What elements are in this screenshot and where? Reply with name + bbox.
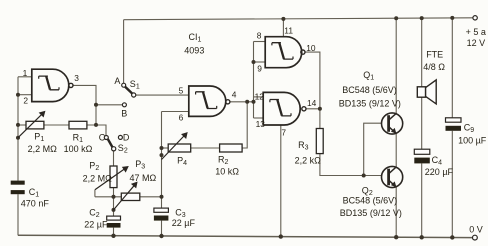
svg-text:CI1: CI1 (189, 32, 202, 44)
svg-text:11: 11 (284, 25, 293, 35)
svg-text:7: 7 (281, 127, 286, 137)
svg-text:C1: C1 (29, 187, 40, 199)
svg-text:C: C (99, 132, 106, 142)
svg-text:470 nF: 470 nF (21, 198, 50, 208)
svg-text:4: 4 (232, 89, 237, 99)
svg-text:S2: S2 (118, 143, 128, 155)
svg-text:2: 2 (23, 96, 28, 106)
svg-text:5: 5 (179, 86, 184, 96)
svg-text:C9: C9 (464, 123, 475, 135)
svg-text:P2: P2 (89, 161, 99, 173)
svg-text:12 V: 12 V (467, 38, 486, 48)
svg-text:P3: P3 (135, 159, 145, 171)
svg-text:B: B (121, 109, 127, 119)
svg-text:100 kΩ: 100 kΩ (64, 144, 93, 154)
svg-text:BC548 (5/6V): BC548 (5/6V) (342, 85, 397, 95)
svg-text:FTE: FTE (426, 50, 443, 60)
svg-text:13: 13 (256, 119, 266, 129)
svg-text:BC548 (5/6V): BC548 (5/6V) (343, 195, 398, 205)
svg-text:R3: R3 (298, 140, 309, 152)
svg-text:0 V: 0 V (469, 225, 483, 235)
svg-text:22 µF: 22 µF (84, 220, 108, 230)
svg-text:1: 1 (23, 68, 28, 78)
svg-text:220 µF: 220 µF (425, 167, 454, 177)
svg-text:8: 8 (257, 30, 262, 40)
svg-text:P1: P1 (34, 131, 44, 143)
svg-text:R2: R2 (218, 154, 229, 166)
svg-text:9: 9 (257, 63, 262, 73)
svg-text:47 MΩ: 47 MΩ (130, 173, 157, 183)
svg-text:BD135 (9/12 V): BD135 (9/12 V) (339, 98, 401, 108)
svg-text:10: 10 (306, 43, 316, 53)
svg-text:4093: 4093 (184, 46, 204, 56)
svg-text:3: 3 (74, 73, 79, 83)
svg-text:4/8 Ω: 4/8 Ω (423, 62, 445, 72)
svg-text:2,2 kΩ: 2,2 kΩ (295, 155, 322, 165)
svg-text:100 µF: 100 µF (458, 136, 487, 146)
svg-text:D: D (123, 132, 130, 142)
svg-text:22 µF: 22 µF (172, 218, 196, 228)
svg-text:Q1: Q1 (363, 70, 374, 82)
svg-text:C2: C2 (89, 208, 100, 220)
svg-text:A: A (114, 76, 120, 86)
svg-text:14: 14 (307, 98, 317, 108)
svg-text:C4: C4 (432, 155, 443, 167)
svg-text:S1: S1 (130, 79, 140, 91)
svg-text:10 kΩ: 10 kΩ (215, 166, 239, 176)
svg-text:BD135 (9/12 V): BD135 (9/12 V) (340, 208, 402, 218)
svg-text:P4: P4 (177, 156, 187, 168)
svg-text:2,2 MΩ: 2,2 MΩ (28, 144, 58, 154)
svg-text:6: 6 (179, 112, 184, 122)
svg-text:2,2 MΩ: 2,2 MΩ (83, 173, 113, 183)
svg-text:+ 5 a: + 5 a (466, 27, 486, 37)
svg-text:12: 12 (255, 91, 265, 101)
svg-text:R1: R1 (73, 132, 84, 144)
